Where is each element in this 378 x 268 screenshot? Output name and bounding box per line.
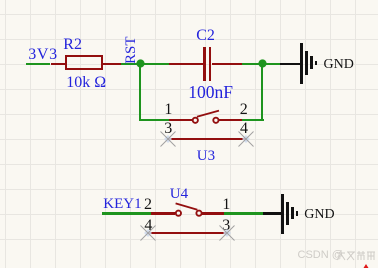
switch U3 contacts and lever	[188, 104, 224, 126]
no-connect X at U4 pin4	[140, 225, 156, 241]
switch U3 pin2 lead (red)	[219, 119, 242, 121]
resistor R2 body	[65, 55, 103, 70]
net label 3V3	[28, 47, 58, 63]
wire node2 down (green)	[261, 64, 263, 121]
pin number 4 (U3)	[240, 121, 248, 137]
junction node 1	[136, 59, 145, 68]
wire to GND (black)	[263, 212, 281, 214]
pin number 1 (U3)	[164, 102, 172, 118]
wire node1 down (green)	[139, 64, 141, 121]
wire to node RST (green)	[121, 63, 140, 65]
wire node2 to GND (black)	[280, 63, 300, 65]
pin number 3 (U4)	[222, 218, 230, 234]
switch U3 pins 3-4 bar (red)	[168, 138, 247, 140]
ground GND bottom: bar4	[296, 211, 299, 215]
wire U4 to GND (green)	[224, 212, 264, 214]
wire 3V3 segment (green)	[26, 63, 51, 65]
ground GND top: bar4	[315, 61, 318, 65]
value 10k Ω	[66, 75, 106, 91]
switch U4 pin2 lead (red)	[151, 212, 176, 214]
capacitor C2 right plate	[209, 47, 212, 80]
designator C2	[196, 28, 215, 44]
net label KEY1	[103, 197, 141, 212]
no-connect X at U3 pin3	[160, 131, 176, 147]
watermark CJK glyph blocks	[336, 250, 376, 261]
switch U4 pins 4-3 bar (red)	[148, 232, 227, 234]
no-connect X at U3 pin4	[238, 131, 254, 147]
ground GND top: label	[324, 58, 354, 72]
pin number 4 (U4)	[144, 218, 152, 234]
pin number 2 (U3)	[240, 102, 248, 118]
pin number 1 (U4)	[222, 197, 230, 213]
switch U4 contacts and lever	[171, 197, 207, 219]
wire C2 to node 2 (green)	[242, 63, 280, 65]
capacitor C2 right pin (red)	[212, 63, 243, 65]
switch U4 pin1 lead (red)	[202, 212, 224, 214]
pin number 2 (U4)	[144, 197, 152, 213]
ground GND top: bar1	[300, 43, 303, 83]
net label RST (rotated)	[124, 36, 139, 64]
junction node 2	[258, 59, 267, 68]
pin number 3 (U3)	[164, 121, 172, 137]
watermark CSDN	[298, 250, 343, 261]
no-connect X at U4 pin3	[219, 225, 235, 241]
ground GND top: bar3	[310, 56, 313, 69]
value 100nF	[188, 84, 233, 102]
wire node1 to C2 (green)	[140, 63, 169, 65]
cursor mark (red triangle)	[363, 264, 369, 268]
capacitor C2 left pin (red)	[169, 63, 203, 65]
designator U4	[170, 187, 188, 202]
designator R2	[63, 37, 82, 53]
ground GND bottom: bar1	[281, 194, 284, 234]
resistor R1 left pin (red)	[51, 63, 66, 65]
switch U3 pin1 lead (red)	[169, 119, 192, 121]
wire U3 right stub (green)	[242, 119, 264, 121]
resistor R2 right pin (red)	[103, 63, 121, 65]
wire KEY1 segment (green)	[102, 212, 151, 214]
ground GND top: bar2	[305, 51, 308, 75]
wire U3 left stub (green)	[139, 119, 169, 121]
ground GND bottom: label	[304, 208, 334, 222]
ground GND bottom: bar3	[291, 207, 294, 220]
capacitor C2 left plate	[203, 47, 206, 80]
designator U3	[197, 149, 215, 164]
ground GND bottom: bar2	[286, 202, 289, 226]
